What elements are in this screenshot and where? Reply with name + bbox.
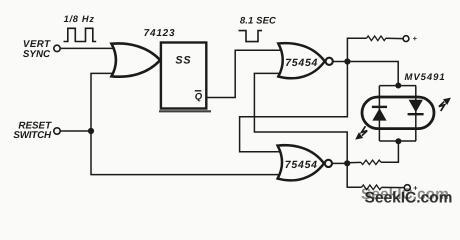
svg-text:75454: 75454 xyxy=(285,57,318,69)
terminal VERT SYNC xyxy=(23,39,60,60)
terminal RESET SWITCH xyxy=(13,120,60,141)
light emission arrow (top right) xyxy=(439,98,451,111)
light emission arrow (bottom left) xyxy=(355,126,367,139)
svg-text:+: + xyxy=(413,34,418,43)
pin label Q-bar of U1 xyxy=(195,91,203,103)
LED D1 (left, pointing up) xyxy=(372,107,387,121)
resistor R3 xyxy=(362,185,382,190)
driver gate U3 75454 xyxy=(278,145,324,180)
svg-text:SS: SS xyxy=(175,55,191,67)
OR gate input xyxy=(112,43,161,76)
driver gate U2 75454 xyxy=(278,43,324,78)
svg-text:8.1 SEC: 8.1 SEC xyxy=(240,15,276,26)
wire 74123 Q-bar output to gate U2 input A xyxy=(207,50,282,97)
wire node 1 to LED anode rail xyxy=(347,62,398,86)
waveform label 8.1 SEC xyxy=(240,15,276,26)
svg-text:74123: 74123 xyxy=(144,28,176,39)
terminal + (bottom supply) xyxy=(404,183,418,192)
terminal + (top supply) xyxy=(403,34,418,43)
wire VERT SYNC terminal to OR gate input A xyxy=(60,47,116,49)
junction node 1 (U2 output) xyxy=(344,58,350,64)
svg-text:75454: 75454 xyxy=(285,159,318,171)
resistor R2 xyxy=(361,160,381,164)
wire resistor R1 to plus terminal xyxy=(386,37,403,39)
svg-text:1/8 Hz: 1/8 Hz xyxy=(64,14,95,24)
LED anode rail (top) of MV5491 xyxy=(379,85,416,87)
junction node R (reset wire) xyxy=(88,128,94,134)
wire resistor R2 to node 2 xyxy=(347,161,361,163)
wire node 1 up to resistor R1 xyxy=(347,38,366,61)
wire RESET SWITCH terminal to node R xyxy=(60,130,91,132)
wire resistor R3 to bottom plus terminal xyxy=(382,186,405,188)
wire node 1 feedback to gate U3 input A xyxy=(240,62,348,152)
svg-text:Q: Q xyxy=(195,91,203,102)
svg-text:MV5491: MV5491 xyxy=(405,72,446,83)
wire node 2 down to resistor R3 xyxy=(347,163,361,187)
svg-text:SWITCH: SWITCH xyxy=(13,130,52,141)
LED D2 (right, pointing down) xyxy=(408,100,424,114)
svg-text:SeekIC.com: SeekIC.com xyxy=(365,189,453,206)
junction node 2 (U3 output) xyxy=(344,160,350,166)
LED package MV5491 body xyxy=(362,72,446,128)
wire node 2 feedback to gate U2 input B xyxy=(254,73,347,163)
wire node R riser to OR gate input B xyxy=(91,73,116,131)
LED D1 lead (left) xyxy=(378,86,380,141)
wire gate U3 output bubble to node 2 xyxy=(332,162,347,164)
svg-text:SYNC: SYNC xyxy=(23,49,51,60)
wire gate U2 output bubble to node 1 xyxy=(333,61,348,63)
waveform 8.1 SEC negative pulse xyxy=(239,31,263,42)
wire OR gate output to 74123 input xyxy=(156,59,162,61)
junction LED anode rail center xyxy=(395,83,401,89)
wire node R down and along bottom to gate U3 input B xyxy=(91,131,282,175)
junction LED cathode rail center xyxy=(395,138,401,144)
resistor R1 xyxy=(367,36,386,41)
waveform label 1/8 Hz xyxy=(64,14,95,24)
LED cathode rail (bottom) of MV5491 xyxy=(379,140,416,142)
LED D2 lead (right) xyxy=(415,86,417,141)
output bubble of U3 xyxy=(325,160,332,167)
waveform 1/8 Hz square wave xyxy=(64,28,97,41)
output bubble of U2 xyxy=(326,58,333,65)
wire LED cathode rail down to resistor R2 xyxy=(381,141,398,162)
watermark SeekIC.com xyxy=(361,186,452,206)
monostable U1 74123 box xyxy=(144,28,211,111)
